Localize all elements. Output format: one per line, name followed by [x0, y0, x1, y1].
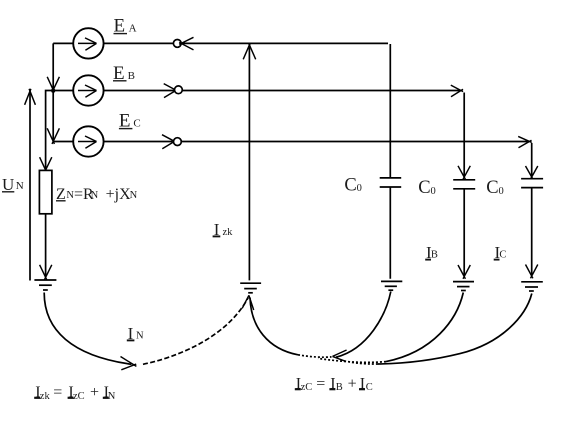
ground I_zk — [240, 283, 261, 293]
formula I_zk = I_zC + I_N — [34, 384, 116, 402]
current path I_N (neutral ground to arrow) — [44, 293, 131, 365]
label C0 a — [344, 176, 361, 196]
label I_B — [425, 243, 438, 262]
source E_A — [73, 28, 103, 58]
dropper phase C upper — [531, 143, 533, 176]
label I_N — [127, 324, 144, 343]
ground a — [381, 281, 402, 290]
label U_N — [2, 175, 24, 194]
wire phase C right — [181, 141, 527, 143]
dropper phase C lower — [531, 188, 533, 275]
svg-text:C: C — [499, 249, 506, 260]
contact B (open circle) — [175, 86, 183, 94]
wire phase B left — [53, 90, 73, 92]
arrowhead down onto capacitor C — [526, 166, 538, 179]
arrowhead up into I_zk ground — [242, 295, 254, 310]
capacitor C0 a — [380, 178, 402, 187]
label I_zk — [213, 220, 234, 239]
arrowhead right before contact B — [164, 84, 179, 98]
arrowhead right before contact C — [162, 135, 177, 149]
svg-text:0: 0 — [431, 186, 436, 197]
formula I_zC = I_B + I_C — [295, 375, 373, 393]
arc from ground c dotted tail — [341, 360, 378, 364]
junction dot — [51, 88, 55, 92]
current path I_zC (from convergence up to I_zk ground) — [250, 298, 298, 355]
dropper phase B upper — [463, 93, 465, 177]
svg-text:zk: zk — [223, 227, 234, 238]
wire phase A middle — [104, 42, 174, 44]
svg-text:+: + — [90, 384, 99, 401]
arrowhead down at neutral ground — [40, 265, 52, 280]
source E_C — [73, 126, 103, 156]
dropper phase A — [389, 44, 391, 178]
svg-text:C: C — [486, 178, 498, 198]
svg-text:C: C — [133, 118, 140, 130]
svg-text:B: B — [336, 382, 343, 393]
arrowhead down at ground b — [458, 265, 470, 279]
svg-text:B: B — [431, 249, 438, 260]
svg-text:C: C — [366, 382, 373, 393]
svg-text:N: N — [91, 190, 99, 201]
label E_A — [114, 16, 137, 37]
svg-text:N: N — [16, 180, 24, 192]
label E_B — [113, 63, 135, 84]
wire phase A left — [53, 42, 73, 44]
svg-text:0: 0 — [499, 186, 504, 197]
label I_C — [494, 243, 507, 262]
wire phase B right — [182, 90, 459, 92]
svg-text:B: B — [128, 70, 135, 82]
ground neutral — [34, 280, 56, 290]
U_N voltage arrow — [25, 89, 36, 281]
svg-text:N: N — [130, 190, 138, 201]
arrowhead right at end of phase B — [451, 85, 463, 97]
capacitor C0 b — [453, 180, 475, 189]
dropper phase A lower — [389, 187, 391, 279]
neutral jog to Z_N — [46, 91, 54, 170]
arc from ground a — [336, 292, 391, 358]
arc from ground c — [378, 294, 532, 365]
label E_C — [119, 111, 141, 132]
arrowhead down onto capacitor B — [458, 166, 470, 180]
svg-text:N: N — [108, 391, 116, 402]
source E_B — [73, 75, 103, 105]
arrowhead up at top of I_zk line — [243, 43, 256, 59]
wire phase A right — [181, 42, 388, 44]
svg-text:=: = — [316, 375, 325, 392]
svg-text:N: N — [136, 331, 144, 342]
svg-text:+jX: +jX — [106, 186, 131, 203]
ground b — [453, 282, 474, 291]
current path I_N continuation to I_zk ground — [143, 298, 248, 365]
svg-text:A: A — [129, 23, 137, 35]
label C0 c — [486, 178, 503, 198]
svg-text:C: C — [344, 176, 356, 196]
dropper phase B lower — [463, 189, 465, 276]
contact C (open circle) — [174, 138, 182, 146]
impedance Z_N — [39, 170, 52, 213]
arrowhead down at ground c — [526, 265, 538, 279]
arrowhead down at junction — [47, 77, 59, 93]
svg-text:zk: zk — [40, 391, 51, 402]
wire Z_N to ground — [45, 214, 47, 277]
label C0 b — [418, 178, 435, 198]
arrowhead down at Z_N top — [40, 157, 52, 172]
arrowhead left at contact A — [179, 37, 193, 50]
svg-text:C: C — [418, 178, 430, 198]
wire phase C left — [53, 141, 73, 143]
arrowhead down at E_C row — [47, 128, 59, 144]
ground c — [521, 282, 543, 291]
capacitor C0 c — [521, 179, 543, 188]
svg-text:U: U — [2, 175, 14, 194]
label Z_N=R_N+jX_N — [56, 186, 138, 203]
current path I_zC dotted tail — [298, 355, 332, 357]
neutral bus from A to junction — [52, 43, 54, 89]
arrowhead I_zC (pointing left at convergence) — [333, 350, 347, 361]
wire phase B middle — [104, 90, 175, 92]
svg-text:=: = — [53, 384, 62, 401]
svg-text:+: + — [348, 375, 357, 392]
neutral drop junction to E_C row — [52, 91, 54, 141]
contact A (open circle) — [173, 40, 181, 48]
svg-text:0: 0 — [357, 183, 362, 194]
arrowhead right at end of phase C — [518, 136, 532, 147]
I_zk vertical line — [248, 43, 250, 280]
svg-text:zC: zC — [73, 391, 85, 402]
arrowhead I_N (pointing right) — [121, 357, 137, 370]
wire phase C middle — [104, 141, 173, 143]
arc from ground b — [386, 293, 463, 362]
svg-text:zC: zC — [301, 382, 313, 393]
arc from ground b dotted tail — [318, 358, 386, 362]
